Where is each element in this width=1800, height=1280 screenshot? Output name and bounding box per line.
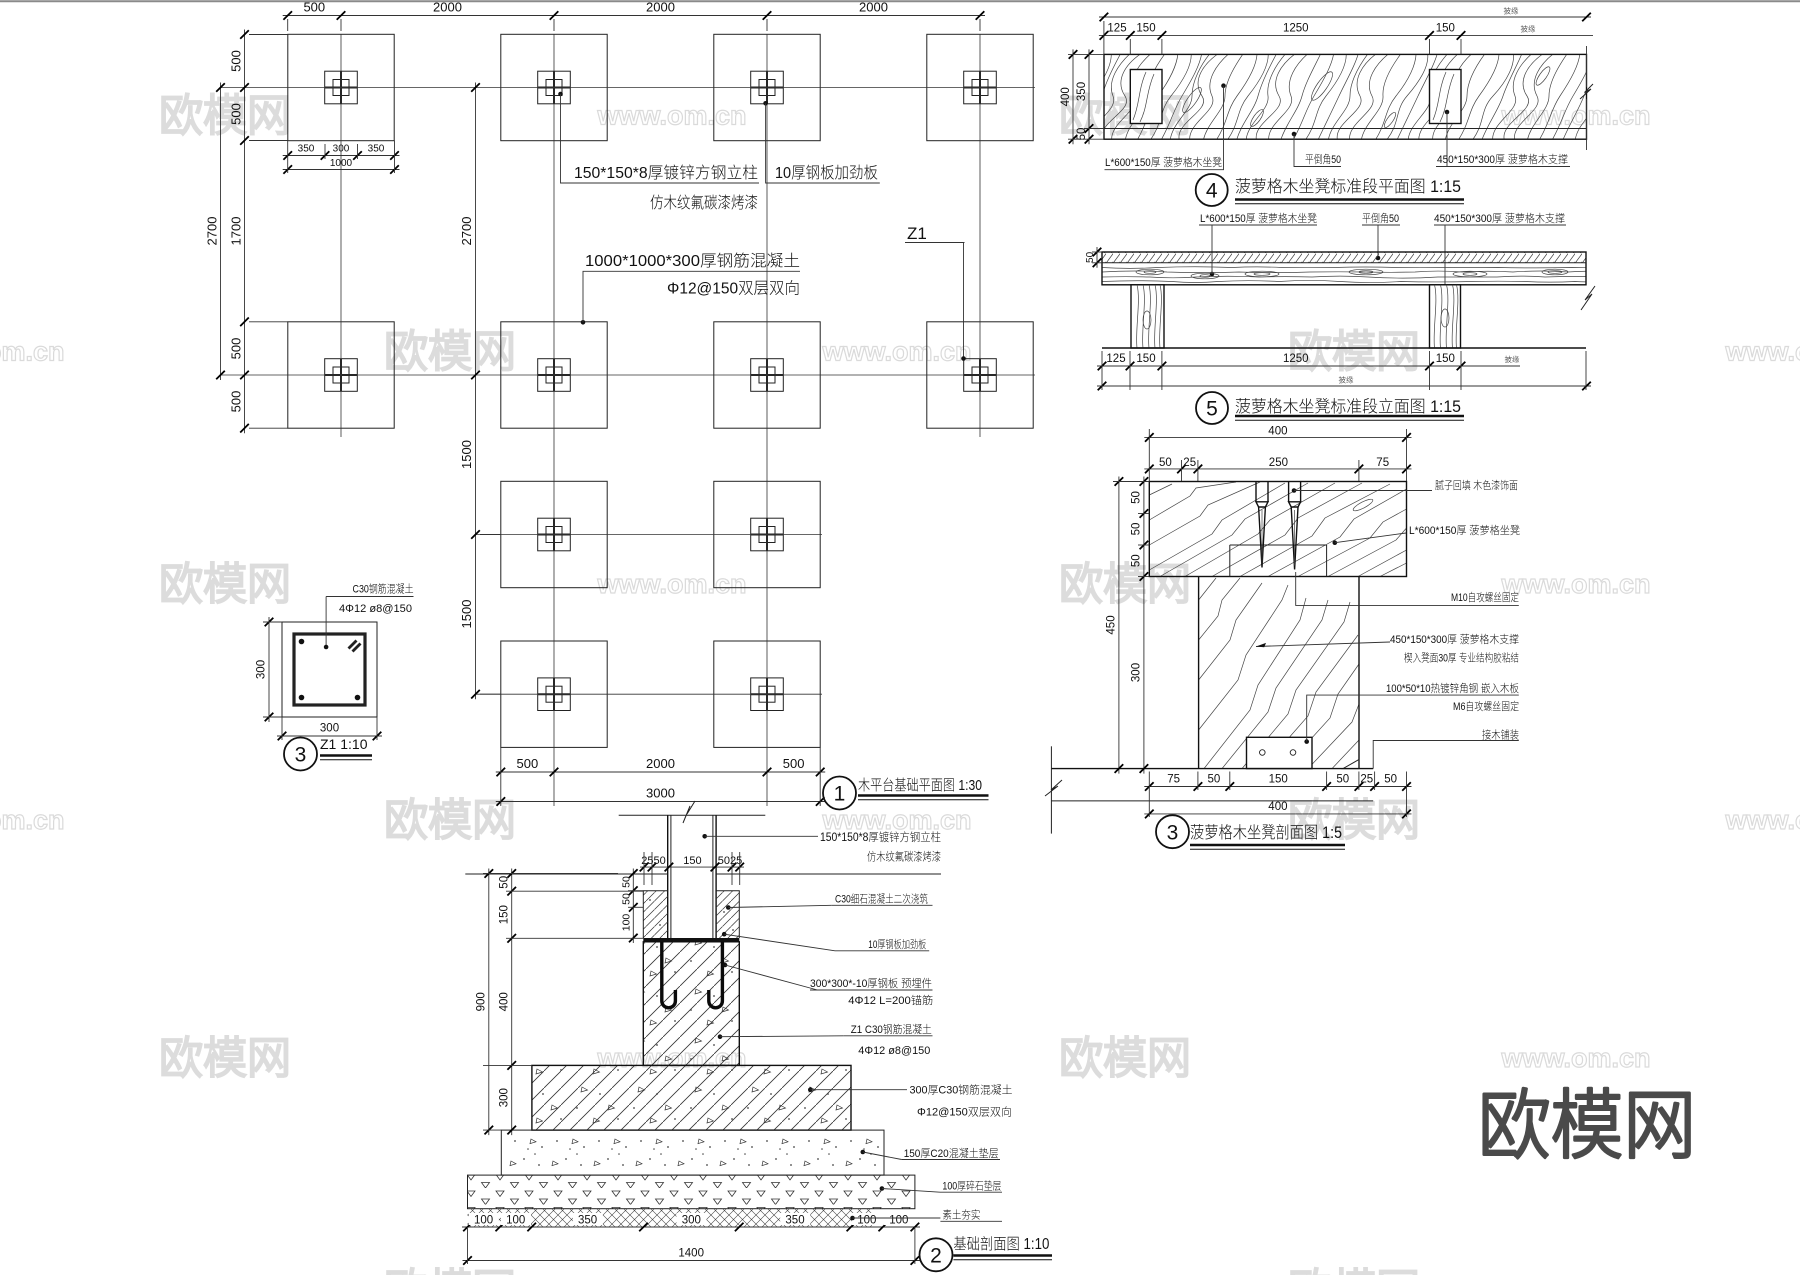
svg-text:50: 50: [1131, 491, 1143, 504]
svg-text:4Φ12 ø8@150: 4Φ12 ø8@150: [339, 603, 412, 615]
svg-text:M6自攻螺丝固定: M6自攻螺丝固定: [1453, 700, 1519, 713]
svg-text:腻子回填 木色漆饰面: 腻子回填 木色漆饰面: [1435, 479, 1518, 492]
svg-text:50: 50: [1336, 774, 1349, 786]
svg-text:2550: 2550: [641, 855, 665, 867]
svg-text:100: 100: [857, 1215, 876, 1227]
svg-text:2: 2: [930, 1244, 942, 1267]
svg-text:Φ12@150双层双向: Φ12@150双层双向: [667, 280, 800, 298]
svg-text:Φ12@150双层双向: Φ12@150双层双向: [917, 1105, 1012, 1119]
svg-text:300: 300: [320, 723, 339, 735]
svg-text:2700: 2700: [205, 217, 220, 246]
svg-text:素土夯实: 素土夯实: [942, 1209, 980, 1222]
svg-text:www.om.cn: www.om.cn: [596, 569, 746, 599]
svg-text:150: 150: [499, 905, 511, 924]
svg-text:披缘: 披缘: [1339, 375, 1355, 385]
svg-text:2000: 2000: [646, 0, 675, 15]
svg-text:楔入凳面30厚 专业结构胶粘结: 楔入凳面30厚 专业结构胶粘结: [1404, 651, 1519, 665]
svg-text:菠萝格木坐凳剖面图 1:5: 菠萝格木坐凳剖面图 1:5: [1190, 823, 1342, 842]
svg-text:www.om.cn: www.om.cn: [0, 337, 65, 367]
svg-text:50: 50: [1208, 774, 1221, 786]
svg-text:www.om.cn: www.om.cn: [821, 337, 971, 367]
svg-text:www.om.cn: www.om.cn: [1724, 337, 1800, 367]
svg-text:1500: 1500: [459, 600, 474, 629]
svg-text:150: 150: [1436, 353, 1455, 365]
svg-text:5025: 5025: [718, 855, 742, 867]
svg-text:1250: 1250: [1283, 23, 1309, 35]
svg-text:欧模网: 欧模网: [384, 796, 516, 845]
svg-text:平倒角50: 平倒角50: [1362, 212, 1399, 225]
svg-text:350: 350: [298, 144, 315, 155]
svg-text:www.om.cn: www.om.cn: [1724, 805, 1800, 835]
svg-text:欧模网: 欧模网: [384, 328, 516, 377]
svg-text:50: 50: [621, 876, 633, 888]
svg-text:5: 5: [1206, 398, 1218, 421]
svg-text:L*600*150厚 菠萝格坐凳: L*600*150厚 菠萝格坐凳: [1409, 523, 1520, 537]
svg-text:欧模网: 欧模网: [1059, 560, 1191, 609]
svg-text:1000: 1000: [330, 158, 353, 169]
svg-text:基础剖面图 1:10: 基础剖面图 1:10: [953, 1235, 1049, 1253]
svg-text:150: 150: [1136, 23, 1155, 35]
svg-text:450*150*300厚 菠萝格木支撑: 450*150*300厚 菠萝格木支撑: [1434, 211, 1565, 225]
svg-text:欧模网: 欧模网: [1288, 1266, 1420, 1275]
svg-text:350: 350: [785, 1215, 804, 1227]
svg-text:50: 50: [499, 876, 511, 889]
svg-text:50: 50: [1076, 128, 1088, 141]
svg-text:披缘: 披缘: [1505, 354, 1521, 364]
svg-text:4Φ12 L=200锚筋: 4Φ12 L=200锚筋: [848, 993, 933, 1007]
svg-text:接木铺装: 接木铺装: [1482, 728, 1519, 742]
svg-text:350: 350: [368, 144, 385, 155]
svg-text:L*600*150厚 菠萝格木坐凳: L*600*150厚 菠萝格木坐凳: [1200, 211, 1317, 225]
svg-text:100*50*10热镀锌角钢 嵌入木板: 100*50*10热镀锌角钢 嵌入木板: [1386, 681, 1519, 695]
svg-text:300厚C30钢筋混凝土: 300厚C30钢筋混凝土: [910, 1083, 1013, 1097]
svg-text:450*150*300厚 菠萝格木支撑: 450*150*300厚 菠萝格木支撑: [1390, 632, 1519, 646]
svg-text:4: 4: [1206, 180, 1218, 203]
svg-text:1250: 1250: [1283, 353, 1309, 365]
svg-text:150: 150: [1136, 353, 1155, 365]
svg-text:www.om.cn: www.om.cn: [0, 805, 65, 835]
svg-text:10厚钢板加劲板: 10厚钢板加劲板: [775, 164, 878, 182]
svg-text:1700: 1700: [229, 217, 244, 246]
svg-text:50: 50: [1131, 523, 1143, 536]
svg-text:2700: 2700: [459, 217, 474, 246]
svg-text:菠萝格木坐凳标准段平面图 1:15: 菠萝格木坐凳标准段平面图 1:15: [1235, 177, 1461, 196]
svg-text:75: 75: [1376, 457, 1389, 469]
svg-text:100厚碎石垫层: 100厚碎石垫层: [942, 1180, 1001, 1193]
svg-text:欧模网: 欧模网: [1478, 1084, 1696, 1169]
svg-text:披缘: 披缘: [1521, 24, 1537, 34]
svg-text:2000: 2000: [859, 0, 888, 15]
svg-text:100: 100: [621, 914, 633, 932]
svg-text:50: 50: [621, 893, 633, 905]
svg-text:C30细石混凝土二次浇筑: C30细石混凝土二次浇筑: [835, 892, 928, 906]
svg-text:400: 400: [1268, 801, 1287, 813]
svg-text:1: 1: [834, 783, 846, 806]
svg-text:300: 300: [499, 1088, 511, 1107]
svg-text:500: 500: [517, 756, 539, 771]
svg-text:500: 500: [783, 756, 805, 771]
svg-text:100: 100: [506, 1215, 525, 1227]
svg-text:500: 500: [303, 0, 325, 15]
svg-text:300: 300: [682, 1215, 701, 1227]
svg-text:菠萝格木坐凳标准段立面图 1:15: 菠萝格木坐凳标准段立面图 1:15: [1235, 397, 1461, 416]
svg-text:400: 400: [1060, 87, 1072, 106]
svg-text:100: 100: [474, 1215, 493, 1227]
svg-text:欧模网: 欧模网: [1288, 328, 1420, 377]
svg-text:500: 500: [229, 103, 244, 125]
svg-text:www.om.cn: www.om.cn: [1500, 569, 1650, 599]
svg-text:C30钢筋混凝土: C30钢筋混凝土: [353, 582, 414, 596]
svg-text:900: 900: [476, 992, 488, 1011]
svg-text:www.om.cn: www.om.cn: [1500, 1043, 1650, 1073]
svg-text:300*300*-10厚钢板 预埋件: 300*300*-10厚钢板 预埋件: [810, 976, 932, 990]
svg-text:150*150*8厚镀锌方钢立柱: 150*150*8厚镀锌方钢立柱: [574, 164, 758, 182]
svg-text:500: 500: [229, 50, 244, 72]
svg-text:350: 350: [578, 1215, 597, 1227]
svg-text:150厚C20混凝土垫层: 150厚C20混凝土垫层: [904, 1147, 999, 1160]
svg-text:M10自攻螺丝固定: M10自攻螺丝固定: [1451, 591, 1519, 604]
svg-text:www.om.cn: www.om.cn: [1500, 101, 1650, 131]
svg-text:450: 450: [1106, 615, 1118, 634]
svg-text:欧模网: 欧模网: [384, 1266, 516, 1275]
svg-text:500: 500: [229, 391, 244, 413]
svg-text:100: 100: [889, 1215, 908, 1227]
svg-text:仿木纹氟碳漆烤漆: 仿木纹氟碳漆烤漆: [867, 851, 941, 864]
svg-text:75: 75: [1167, 774, 1180, 786]
svg-text:Z1: Z1: [907, 224, 927, 243]
svg-text:50: 50: [1384, 774, 1397, 786]
svg-text:披缘: 披缘: [1504, 6, 1520, 16]
svg-text:150: 150: [1436, 23, 1455, 35]
svg-text:150: 150: [683, 855, 701, 867]
svg-text:1000*1000*300厚钢筋混凝土: 1000*1000*300厚钢筋混凝土: [585, 252, 800, 270]
svg-text:150: 150: [1269, 774, 1288, 786]
svg-text:欧模网: 欧模网: [159, 92, 291, 141]
svg-text:1400: 1400: [678, 1248, 704, 1260]
svg-text:25: 25: [1183, 457, 1196, 469]
svg-text:125: 125: [1106, 353, 1125, 365]
svg-text:木平台基础平面图 1:30: 木平台基础平面图 1:30: [858, 777, 982, 794]
svg-text:250: 250: [1269, 457, 1288, 469]
svg-text:50: 50: [1131, 554, 1143, 567]
svg-text:2000: 2000: [433, 0, 462, 15]
svg-text:300: 300: [333, 144, 350, 155]
svg-text:3000: 3000: [646, 786, 675, 801]
svg-text:Z1 C30钢筋混凝土: Z1 C30钢筋混凝土: [851, 1022, 932, 1036]
svg-text:L*600*150厚 菠萝格木坐凳: L*600*150厚 菠萝格木坐凳: [1105, 155, 1222, 169]
svg-text:50: 50: [1159, 457, 1172, 469]
svg-text:25: 25: [1360, 774, 1373, 786]
svg-text:3: 3: [295, 744, 307, 767]
svg-text:1500: 1500: [459, 440, 474, 469]
svg-text:150*150*8厚镀锌方钢立柱: 150*150*8厚镀锌方钢立柱: [820, 830, 941, 844]
svg-text:欧模网: 欧模网: [159, 560, 291, 609]
svg-text:www.om.cn: www.om.cn: [596, 101, 746, 131]
svg-text:400: 400: [1268, 425, 1287, 437]
svg-text:3: 3: [1167, 821, 1179, 844]
svg-text:10厚钢板加劲板: 10厚钢板加劲板: [868, 937, 926, 951]
svg-text:仿木纹氟碳漆烤漆: 仿木纹氟碳漆烤漆: [650, 194, 758, 212]
svg-text:450*150*300厚 菠萝格木支撑: 450*150*300厚 菠萝格木支撑: [1437, 152, 1568, 166]
svg-text:4Φ12 ø8@150: 4Φ12 ø8@150: [858, 1045, 930, 1057]
svg-text:Z1 1:10: Z1 1:10: [320, 736, 368, 752]
svg-text:300: 300: [1131, 663, 1143, 682]
svg-text:50: 50: [1085, 251, 1096, 263]
svg-text:500: 500: [229, 338, 244, 360]
svg-text:400: 400: [499, 992, 511, 1011]
svg-text:350: 350: [1076, 82, 1088, 101]
svg-text:2000: 2000: [646, 756, 675, 771]
svg-text:欧模网: 欧模网: [1059, 1034, 1191, 1083]
svg-text:欧模网: 欧模网: [159, 1034, 291, 1083]
svg-text:300: 300: [256, 660, 268, 679]
svg-text:平倒角50: 平倒角50: [1305, 153, 1341, 166]
svg-text:125: 125: [1107, 23, 1126, 35]
